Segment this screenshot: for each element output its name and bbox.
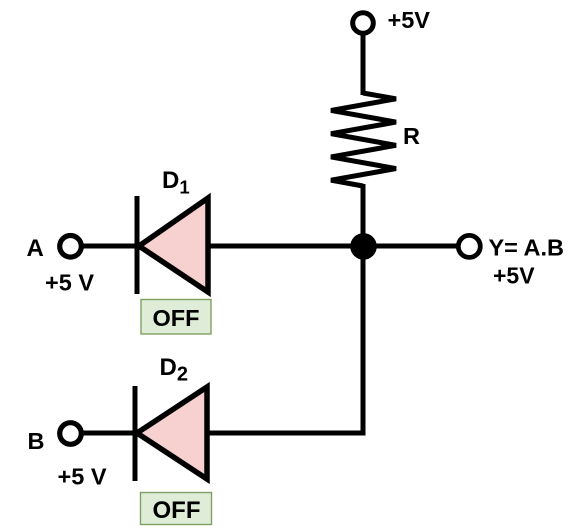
svg-text:+5 V: +5 V	[58, 464, 107, 490]
svg-text:OFF: OFF	[153, 497, 201, 524]
svg-text:+5V: +5V	[493, 263, 535, 289]
svg-text:Y= A.B: Y= A.B	[489, 235, 565, 261]
svg-text:A: A	[27, 235, 44, 262]
svg-text:OFF: OFF	[153, 305, 200, 331]
svg-text:+5V: +5V	[388, 7, 431, 33]
svg-text:R: R	[403, 123, 420, 149]
svg-text:+5 V: +5 V	[45, 270, 94, 296]
svg-text:B: B	[28, 428, 45, 454]
